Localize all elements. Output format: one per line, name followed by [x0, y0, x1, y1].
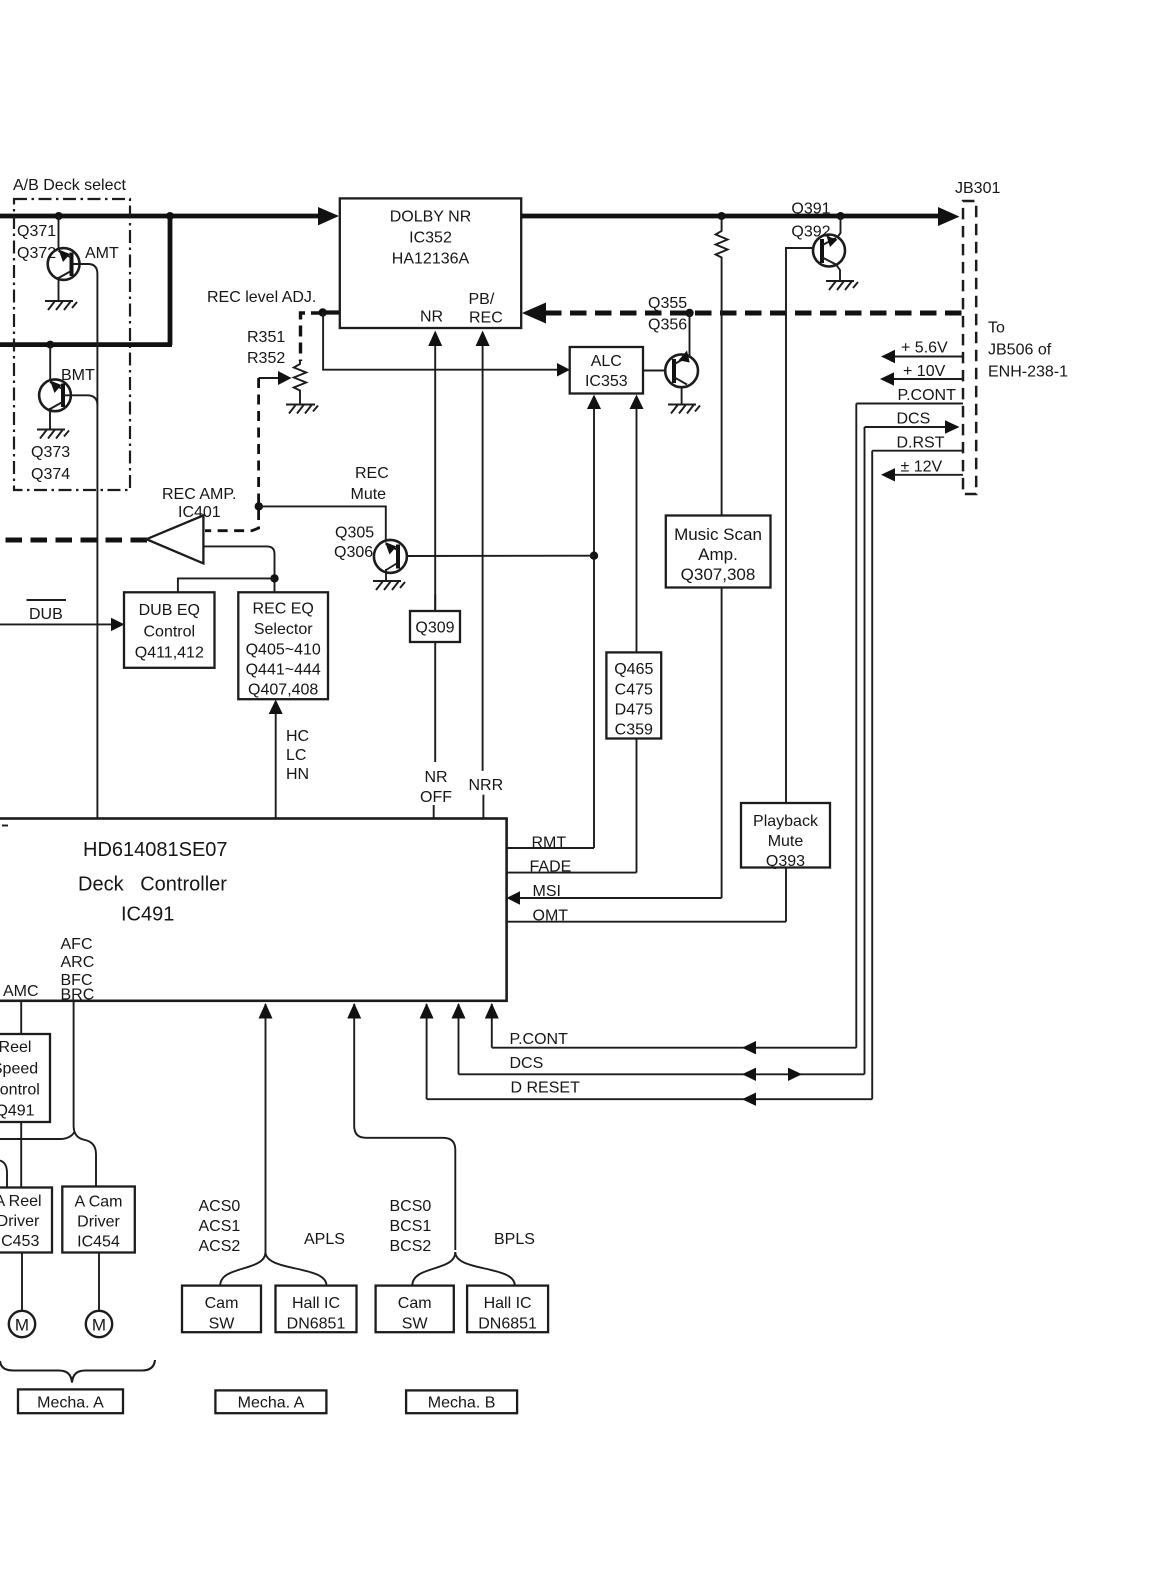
svg-text:Mecha. A: Mecha. A [238, 1395, 305, 1412]
wire: Reel Speed Control to A Reel Driver [20, 1122, 22, 1188]
svg-text:D RESET: D RESET [511, 1080, 581, 1097]
svg-text:Mute: Mute [768, 833, 804, 850]
svg-text:P.CONT: P.CONT [898, 387, 957, 404]
node: junction on wiper line to REC mute [255, 502, 263, 510]
net DCS bottom run with arrows [452, 1003, 865, 1081]
svg-text:REC: REC [469, 310, 503, 327]
svg-text:Q372: Q372 [17, 245, 56, 262]
svg-text:Driver: Driver [0, 1213, 40, 1230]
svg-text:REC level ADJ.: REC level ADJ. [207, 289, 316, 306]
svg-text:Playback: Playback [753, 813, 819, 830]
svg-text:+ 5.6V: + 5.6V [901, 340, 948, 357]
box Cam SW (mecha A) [182, 1286, 261, 1333]
svg-text:Mecha. A: Mecha. A [37, 1395, 104, 1412]
wiper arrow into R351 [259, 371, 292, 385]
resistor R351/R352 (REC level trimmer) [294, 361, 306, 404]
svg-text:Control: Control [144, 624, 196, 641]
svg-text:JB506 of: JB506 of [988, 342, 1052, 359]
wire: BMT emitter to select line [64, 395, 97, 405]
svg-text:Control: Control [0, 1082, 40, 1099]
net OMT line [507, 908, 786, 925]
wire: branch to DUB EQ [178, 578, 275, 592]
wire: ACS bus down from controller with up arrow and fork [220, 1003, 326, 1286]
motor M (A reel) [9, 1253, 35, 1338]
svg-text:BCS2: BCS2 [390, 1238, 432, 1255]
node: REC level tap junction [319, 308, 327, 316]
wire: NR OFF stub into controller [433, 805, 435, 819]
net ±12V line with left arrow [881, 459, 963, 482]
svg-text:AMC: AMC [3, 983, 39, 1000]
label REC Mute [351, 465, 389, 503]
motor M (A cam) [86, 1253, 112, 1338]
svg-text:P.CONT: P.CONT [510, 1031, 569, 1048]
node: junction of Q373 collector on lower bus [46, 341, 54, 349]
ground (Q355/Q356 emitter) [668, 405, 700, 414]
svg-text:Q374: Q374 [31, 466, 70, 483]
svg-text:Q355: Q355 [648, 295, 687, 312]
node: junction Q355 collector on PB/REC dashed line [685, 309, 693, 317]
wire: main signal bus (thick) from left edge to DOLBY NR [0, 207, 339, 225]
svg-text:M: M [92, 1316, 106, 1335]
svg-text:Q391: Q391 [791, 201, 830, 218]
wire: AMT/BMT select line down to deck controller [73, 264, 98, 818]
svg-text:IC401: IC401 [178, 504, 221, 521]
transistor Q391/Q392 [813, 216, 845, 281]
box Reel Speed Control Q491 [0, 1034, 50, 1122]
svg-text:Q392: Q392 [791, 224, 830, 241]
svg-text:HC: HC [286, 728, 309, 745]
svg-text:AMT: AMT [85, 245, 119, 262]
box Mecha. A (left) [18, 1389, 123, 1413]
box Mecha. A (middle) [215, 1390, 326, 1413]
net +5.6V line with left arrow [881, 340, 963, 364]
IC DOLBY NR IC352 box [340, 198, 521, 328]
svg-text:Q407,408: Q407,408 [248, 682, 318, 699]
svg-text:DN6851: DN6851 [287, 1316, 346, 1333]
svg-text:Q393: Q393 [766, 853, 805, 870]
svg-text:A Reel: A Reel [0, 1193, 42, 1210]
svg-text:R352: R352 [247, 350, 285, 367]
wire: op-amp output to EQ boxes [203, 546, 274, 592]
svg-text:NR: NR [425, 769, 448, 786]
svg-text:IC353: IC353 [585, 373, 628, 390]
wire: dashed trimmer wiper line down to REC AMP input [205, 378, 259, 531]
svg-text:Music Scan: Music Scan [674, 525, 762, 544]
wire: thick dashed REC output line to left edge [0, 538, 147, 543]
svg-text:BMT: BMT [61, 367, 95, 384]
wire: NRR stub into controller [482, 795, 484, 819]
wire: tap node down and right into ALC with arrow [323, 313, 570, 377]
svg-text:ALC: ALC [591, 353, 622, 370]
A/B Deck select dash-dot box [14, 199, 130, 490]
svg-text:Selector: Selector [254, 621, 313, 638]
svg-text:Deck Controller: Deck Controller [78, 874, 227, 896]
label HC LC HN [286, 728, 309, 783]
wire: BCS bus down from controller with up arrow, jog and fork [347, 1003, 515, 1286]
svg-text:HD614081SE07: HD614081SE07 [83, 839, 228, 861]
svg-text:BRC: BRC [61, 987, 95, 1004]
svg-text:Q371: Q371 [17, 223, 56, 240]
box A Cam Driver IC454 [62, 1187, 135, 1253]
connector JB301 (dashed) [963, 201, 976, 494]
wire: controller to Reel Speed Control [20, 1001, 22, 1034]
svg-text:Q491: Q491 [0, 1103, 35, 1120]
svg-text:Driver: Driver [77, 1214, 120, 1231]
net P.CONT bottom run with arrows [485, 1003, 857, 1054]
svg-text:DUB: DUB [29, 606, 63, 623]
svg-text:Amp.: Amp. [698, 545, 738, 564]
wire: ALC pin 2 down through Q465 box with up arrow [630, 395, 644, 653]
pin labels AFC ARC BFC BRC [61, 936, 95, 1004]
svg-text:REC: REC [355, 465, 389, 482]
transistor Q305/Q306 (REC mute) [374, 540, 407, 581]
wire: thick stub from tap node to DOLBY NR left edge [321, 310, 340, 314]
brace (mecha A group) [0, 1360, 155, 1383]
ground (R351/R352) [286, 405, 318, 414]
wire: Q305 output right to ALC pin junction [407, 555, 594, 557]
ground (Q305/Q306 emitter) [373, 581, 405, 590]
net +10V line with left arrow [880, 363, 963, 386]
svg-text:DCS: DCS [510, 1055, 544, 1072]
svg-text:C475: C475 [615, 682, 653, 699]
node: junction of Q371 collector on bus [55, 212, 63, 220]
svg-text:DCS: DCS [897, 411, 931, 428]
svg-text:ARC: ARC [61, 954, 95, 971]
transistor Q355/Q356 [643, 351, 698, 405]
svg-text:HA12136A: HA12136A [392, 251, 470, 268]
wire: P.CONT vertical drop [855, 404, 857, 1048]
wire: PB/REC pin line (NRR) with up arrow [476, 331, 490, 771]
svg-text:A Cam: A Cam [74, 1194, 122, 1211]
svg-text:ENH-238-1: ENH-238-1 [988, 364, 1068, 381]
IC deck controller HD614081SE07 IC491 box [0, 819, 507, 1001]
box Cam SW (mecha B) [376, 1286, 454, 1333]
svg-text:IC453: IC453 [0, 1233, 39, 1250]
wire: thick bus from DOLBY NR to JB301 [521, 207, 959, 226]
wire: BRC pin down and over to A Cam Driver [74, 1001, 96, 1187]
svg-text:Q356: Q356 [648, 317, 687, 334]
svg-text:Mute: Mute [351, 486, 387, 503]
svg-text:AFC: AFC [61, 936, 93, 953]
svg-text:SW: SW [209, 1316, 236, 1333]
box Hall IC DN6851 (mecha B) [467, 1286, 548, 1333]
svg-text:To: To [988, 320, 1005, 337]
svg-text:JB301: JB301 [955, 180, 1000, 197]
wire: Q391 base line down to Playback Mute [786, 248, 813, 803]
svg-text:Reel: Reel [0, 1039, 31, 1056]
box Music Scan Amp. Q307,308 [666, 516, 771, 588]
wire: horizontal feed from left edge merging to A Cam Driver [0, 1132, 75, 1139]
node: junction Q391 on bus [837, 212, 845, 220]
svg-text:REC AMP.: REC AMP. [162, 486, 236, 503]
net RMT line [507, 835, 594, 852]
svg-text:± 12V: ± 12V [901, 459, 943, 476]
svg-text:IC454: IC454 [77, 1234, 120, 1251]
label ACS0 ACS1 ACS2 [199, 1198, 241, 1255]
box REC EQ Selector [238, 592, 328, 699]
IC ALC IC353 box [570, 347, 643, 394]
svg-text:ACS2: ACS2 [199, 1238, 241, 1255]
wire: ALC pin 1 down to RMT with up arrow [587, 395, 601, 849]
svg-text:BPLS: BPLS [494, 1231, 535, 1248]
op-amp REC AMP IC401 [146, 486, 236, 563]
transistor Q371/Q372 (AMT) [48, 216, 80, 301]
svg-text:BCS1: BCS1 [390, 1218, 432, 1235]
label BCS0 BCS1 BCS2 [390, 1198, 432, 1255]
svg-text:PB/: PB/ [469, 291, 495, 308]
svg-text:Cam: Cam [205, 1295, 239, 1312]
svg-text:REC EQ: REC EQ [253, 601, 314, 618]
svg-text:Q405~410: Q405~410 [246, 642, 321, 659]
wire: thick vertical branch to lower bus [168, 214, 173, 345]
svg-text:Q305: Q305 [335, 525, 374, 542]
svg-text:Speed: Speed [0, 1061, 38, 1078]
svg-text:DN6851: DN6851 [478, 1316, 537, 1333]
wire: Playback Mute down to OMT [785, 868, 787, 922]
wire: thick dashed PB/REC line from JB301 into DOLBY NR [522, 303, 963, 324]
net P.CONT line [856, 387, 963, 404]
pin label PB/REC (DOLBY NR) [469, 291, 503, 327]
wire: Music Scan Amp down to MSI [721, 588, 723, 899]
label NR OFF [420, 769, 452, 806]
box Q309 [410, 611, 460, 642]
wire: NR OFF line through Q309 [434, 594, 436, 611]
svg-text:IC491: IC491 [121, 904, 174, 926]
svg-text:M: M [15, 1316, 29, 1335]
node: junction REC mute line / ALC pin [590, 552, 598, 560]
wire: Q465 box down to FADE [636, 739, 638, 873]
note: To JB506 of ENH-238-1 [988, 320, 1068, 381]
box Hall IC DN6851 (mecha A) [276, 1286, 357, 1333]
svg-text:+ 10V: + 10V [903, 363, 946, 380]
svg-text:R351: R351 [247, 329, 285, 346]
svg-text:APLS: APLS [304, 1231, 345, 1248]
net D RESET bottom run with arrows [420, 1003, 873, 1106]
resistor (music scan feed from bus) [716, 216, 728, 516]
svg-text:D.RST: D.RST [897, 435, 945, 452]
svg-text:Q306: Q306 [334, 544, 373, 561]
box Playback Mute Q393 [741, 803, 830, 870]
svg-text:ACS1: ACS1 [199, 1218, 241, 1235]
svg-text:Q307,308: Q307,308 [681, 565, 756, 584]
svg-text:LC: LC [286, 747, 306, 764]
wire: thick lower bus from left edge [0, 342, 172, 347]
svg-text:NR: NR [420, 309, 443, 326]
wire: dashed from tap node to trimmer R351 top [301, 313, 323, 361]
wire: Q355 collector up to PB/REC dashed line [689, 313, 691, 357]
wire: D.RST vertical drop [871, 451, 873, 1099]
svg-text:Q309: Q309 [415, 620, 454, 637]
node: junction of deck-B branch on bus [166, 212, 174, 220]
ground (Q391/Q392 emitter) [826, 281, 858, 290]
svg-text:Q465: Q465 [614, 661, 653, 678]
ground (Q371/Q372 emitter) [45, 301, 77, 310]
ground (Q373/Q374 emitter) [37, 430, 69, 439]
svg-text:OFF: OFF [420, 789, 452, 806]
svg-text:Hall IC: Hall IC [484, 1295, 532, 1312]
svg-text:Q373: Q373 [31, 444, 70, 461]
svg-text:Hall IC: Hall IC [292, 1295, 340, 1312]
box Mecha. B [406, 1390, 517, 1413]
svg-text:Cam: Cam [398, 1295, 432, 1312]
wire: controller to REC EQ with up arrow [269, 700, 283, 819]
wire: REC mute feed from wiper node to Q305 [259, 506, 386, 541]
svg-text:A/B Deck select: A/B Deck select [13, 177, 126, 194]
svg-text:HN: HN [286, 766, 309, 783]
svg-text:SW: SW [402, 1316, 429, 1333]
svg-text:Q441~444: Q441~444 [246, 662, 321, 679]
svg-text:ACS0: ACS0 [199, 1198, 241, 1215]
net D.RST line [872, 435, 963, 452]
node: junction EQ feed [270, 574, 278, 582]
net FADE line [507, 859, 637, 876]
svg-text:Q411,412: Q411,412 [135, 645, 204, 662]
svg-text:DOLBY NR: DOLBY NR [390, 209, 472, 226]
svg-text:C359: C359 [615, 722, 653, 739]
svg-text:NRR: NRR [469, 777, 504, 794]
box DUB EQ Control Q411,412 [124, 592, 215, 668]
svg-text:BCS0: BCS0 [390, 1198, 432, 1215]
net MSI line with left arrow into controller [507, 883, 722, 905]
node: junction music-scan resistor on bus [718, 212, 726, 220]
wire: DCS vertical drop [864, 427, 866, 1074]
wire: left edge arc into A Reel Driver [0, 1161, 7, 1188]
svg-text:Mecha. B: Mecha. B [428, 1395, 496, 1412]
box A Reel Driver IC453 [0, 1188, 52, 1253]
net DCS line with right arrow [865, 411, 960, 434]
label DUB (overline) [27, 600, 67, 623]
transistor Q373/Q374 (BMT) [39, 345, 71, 429]
wire: DUB line into DUB EQ with arrow [0, 618, 125, 631]
svg-text:DUB EQ: DUB EQ [139, 602, 200, 619]
parts box Q465 C475 D475 C359 [606, 652, 661, 738]
wire: NR pin line with up arrow [428, 331, 442, 763]
svg-text:IC352: IC352 [409, 230, 452, 247]
svg-text:D475: D475 [615, 702, 653, 719]
